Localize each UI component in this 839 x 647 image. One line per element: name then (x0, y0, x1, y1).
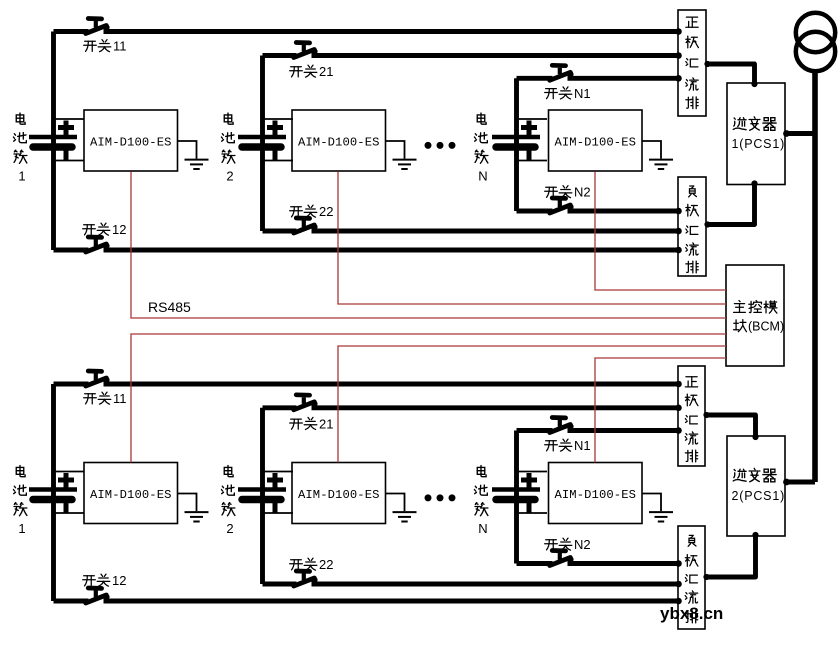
wire: cluster-1 positive feed to busbar (system 2) (54, 382, 89, 387)
ground of UN-2 (642, 494, 673, 522)
switch 开关12 S12-2 (86, 588, 110, 603)
svg-text:22: 22 (319, 557, 333, 572)
wire: cluster-2 positive feed to busbar (system 1) (263, 53, 297, 58)
BMS module U1-1 (AIM-D100-ES) (84, 110, 178, 171)
label 开关N1 SN1-2 text (545, 438, 591, 453)
label battery cluster N (system 1) (474, 113, 488, 183)
label 开关12 S12-1 text (83, 222, 127, 237)
switch 开关21 S21-1 (294, 43, 318, 58)
busbar negative busbar 1 (负极汇流排) (678, 177, 706, 276)
svg-text:AIM-D100-ES: AIM-D100-ES (298, 135, 380, 149)
wire: negative busbar 1 to inverter 1 (706, 184, 755, 225)
label battery cluster N (system 2) (474, 466, 488, 536)
BMS module UN-1 (AIM-D100-ES) (549, 110, 643, 171)
svg-text:AIM-D100-ES: AIM-D100-ES (90, 488, 172, 502)
node: ellipsis (more clusters, system 1) (425, 142, 456, 149)
svg-text:2: 2 (226, 521, 233, 536)
wire: cluster-N positive feed to busbar (system 2) (517, 428, 553, 433)
wire: cluster-1 negative feed to busbar (system 1) (54, 248, 89, 253)
label 开关12 S12-2 text (83, 573, 127, 588)
wire: inverter 2 to transformer (785, 480, 815, 485)
label 开关21 S21-2 text (290, 417, 334, 432)
wire: positive busbar 2 to inverter 2 (705, 415, 756, 437)
switch 开关11 S11-1 (86, 19, 110, 34)
svg-text:1(PCS1): 1(PCS1) (732, 137, 786, 151)
label 开关22 S22-1 text (290, 204, 334, 219)
svg-text:11: 11 (113, 391, 127, 406)
wire: inverter 1 to transformer (785, 131, 815, 136)
wire: positive busbar 1 to inverter 1 (706, 64, 755, 84)
battery cluster 2 (system 2) (238, 472, 293, 514)
switch 开关N2 SN2-2 (550, 551, 574, 566)
master control module BCM (主控模块) (726, 265, 784, 366)
RS485 line: module U1-2 to BCM (131, 334, 726, 463)
wire: cluster-N negative feed to busbar (system 1) (517, 209, 553, 214)
label 开关N2 SN2-2 text (545, 537, 591, 552)
wire: cluster-N positive feed to busbar (system 1) (517, 76, 553, 81)
label 开关N2 SN2-1 text (545, 185, 591, 200)
wire: cluster-1 positive feed to busbar (system 1) (54, 29, 89, 34)
switch 开关22 S22-1 (294, 218, 318, 233)
switch 开关N1 SN1-1 (550, 65, 574, 80)
svg-text:AIM-D100-ES: AIM-D100-ES (90, 135, 172, 149)
battery cluster N (system 2) (492, 472, 547, 514)
label battery cluster 2 (system 2) (221, 466, 235, 536)
busbar positive busbar 1 (正极汇流排) (678, 10, 706, 116)
wire: cluster-1 left bus (system 1) (51, 32, 56, 251)
RS485 line: module UN-1 to BCM (595, 172, 726, 291)
BMS module U2-2 (AIM-D100-ES) (292, 463, 386, 524)
switch 开关22 S22-2 (294, 571, 318, 586)
wire: cluster-N bus (system 1) (514, 78, 519, 211)
label 开关N1 SN1-1 text (545, 86, 591, 101)
wire: cluster-2 bus (system 2) (260, 408, 265, 584)
svg-text:AIM-D100-ES: AIM-D100-ES (298, 488, 380, 502)
wire: cluster-2 bus (system 1) (260, 56, 265, 232)
wire: cluster-N bus (system 2) (514, 431, 519, 564)
svg-text:1: 1 (18, 169, 25, 184)
wire: cluster-2 positive feed to busbar (system 2) (263, 405, 297, 410)
label 开关11 S11-2 text (84, 391, 127, 406)
svg-text:12: 12 (112, 222, 126, 237)
wire: cluster-2 negative feed to busbar (system 2) (263, 582, 297, 587)
wire: cluster-1 negative feed to busbar (system 2) (54, 599, 89, 604)
svg-text:12: 12 (112, 573, 126, 588)
switch 开关11 S11-2 (86, 371, 110, 386)
ground of UN-1 (642, 141, 673, 169)
ground of U1-1 (178, 141, 209, 169)
inverter U-PCS2 (逆变器2) (727, 436, 785, 536)
wire: negative busbar 2 to inverter 2 (705, 535, 756, 577)
svg-text:21: 21 (319, 417, 333, 432)
RS485 line: module UN-2 to BCM (595, 358, 726, 463)
label 开关22 S22-2 text (290, 557, 334, 572)
node: ellipsis (more clusters, system 2) (425, 494, 456, 501)
switch 开关21 S21-2 (294, 395, 318, 410)
inverter U-PCS1 (逆变器1) (727, 83, 785, 185)
svg-text:N: N (478, 169, 487, 184)
svg-text:N1: N1 (574, 86, 591, 101)
svg-text:22: 22 (319, 204, 333, 219)
switch 开关N1 SN1-2 (550, 418, 574, 433)
wire: cluster-1 left bus (system 2) (51, 384, 56, 601)
wire: cluster-N negative feed to busbar (system 2) (517, 561, 553, 566)
battery cluster N (system 1) (492, 119, 547, 161)
label battery cluster 2 (system 1) (221, 113, 235, 183)
BMS module U2-1 (AIM-D100-ES) (292, 110, 386, 171)
svg-text:11: 11 (113, 39, 127, 54)
svg-text:2(PCS1): 2(PCS1) (732, 489, 786, 503)
svg-text:N: N (478, 521, 487, 536)
label battery cluster 1 (system 2) (13, 466, 27, 536)
busbar negative busbar 2 (负极汇流排) (678, 526, 705, 629)
svg-text:N2: N2 (574, 537, 591, 552)
svg-text:N2: N2 (574, 185, 591, 200)
label 开关11 S11-1 text (84, 39, 127, 54)
switch 开关N2 SN2-1 (550, 198, 574, 213)
svg-text:ybx8.cn: ybx8.cn (660, 604, 723, 623)
battery cluster 1 (system 1) (29, 119, 84, 161)
svg-text:AIM-D100-ES: AIM-D100-ES (554, 135, 636, 149)
switch 开关12 S12-1 (86, 237, 110, 252)
label battery cluster 1 (system 1) (13, 113, 27, 183)
transformer T1 (grid connection) (796, 13, 835, 71)
svg-text:RS485: RS485 (148, 299, 191, 315)
ground of U1-2 (178, 494, 209, 522)
svg-text:2: 2 (226, 169, 233, 184)
svg-text:N1: N1 (574, 438, 591, 453)
battery cluster 1 (system 2) (29, 472, 84, 514)
label 开关21 S21-1 text (290, 64, 334, 79)
RS485 line: module U2-1 to BCM (338, 172, 726, 305)
svg-text:(BCM): (BCM) (748, 320, 784, 334)
RS485 line: module U2-2 to BCM (338, 346, 726, 463)
RS485 line: module U1-1 to BCM (131, 172, 726, 319)
svg-text:1: 1 (18, 521, 25, 536)
svg-text:AIM-D100-ES: AIM-D100-ES (554, 488, 636, 502)
wire: transformer drop line (812, 71, 818, 482)
ground of U2-2 (386, 494, 417, 522)
ground of U2-1 (386, 141, 417, 169)
BMS module U1-2 (AIM-D100-ES) (84, 463, 178, 524)
BMS module UN-2 (AIM-D100-ES) (549, 463, 643, 524)
svg-text:21: 21 (319, 64, 333, 79)
busbar positive busbar 2 (正极汇流排) (678, 366, 705, 466)
wire: cluster-2 negative feed to busbar (system 1) (263, 229, 297, 234)
battery cluster 2 (system 1) (238, 119, 293, 161)
